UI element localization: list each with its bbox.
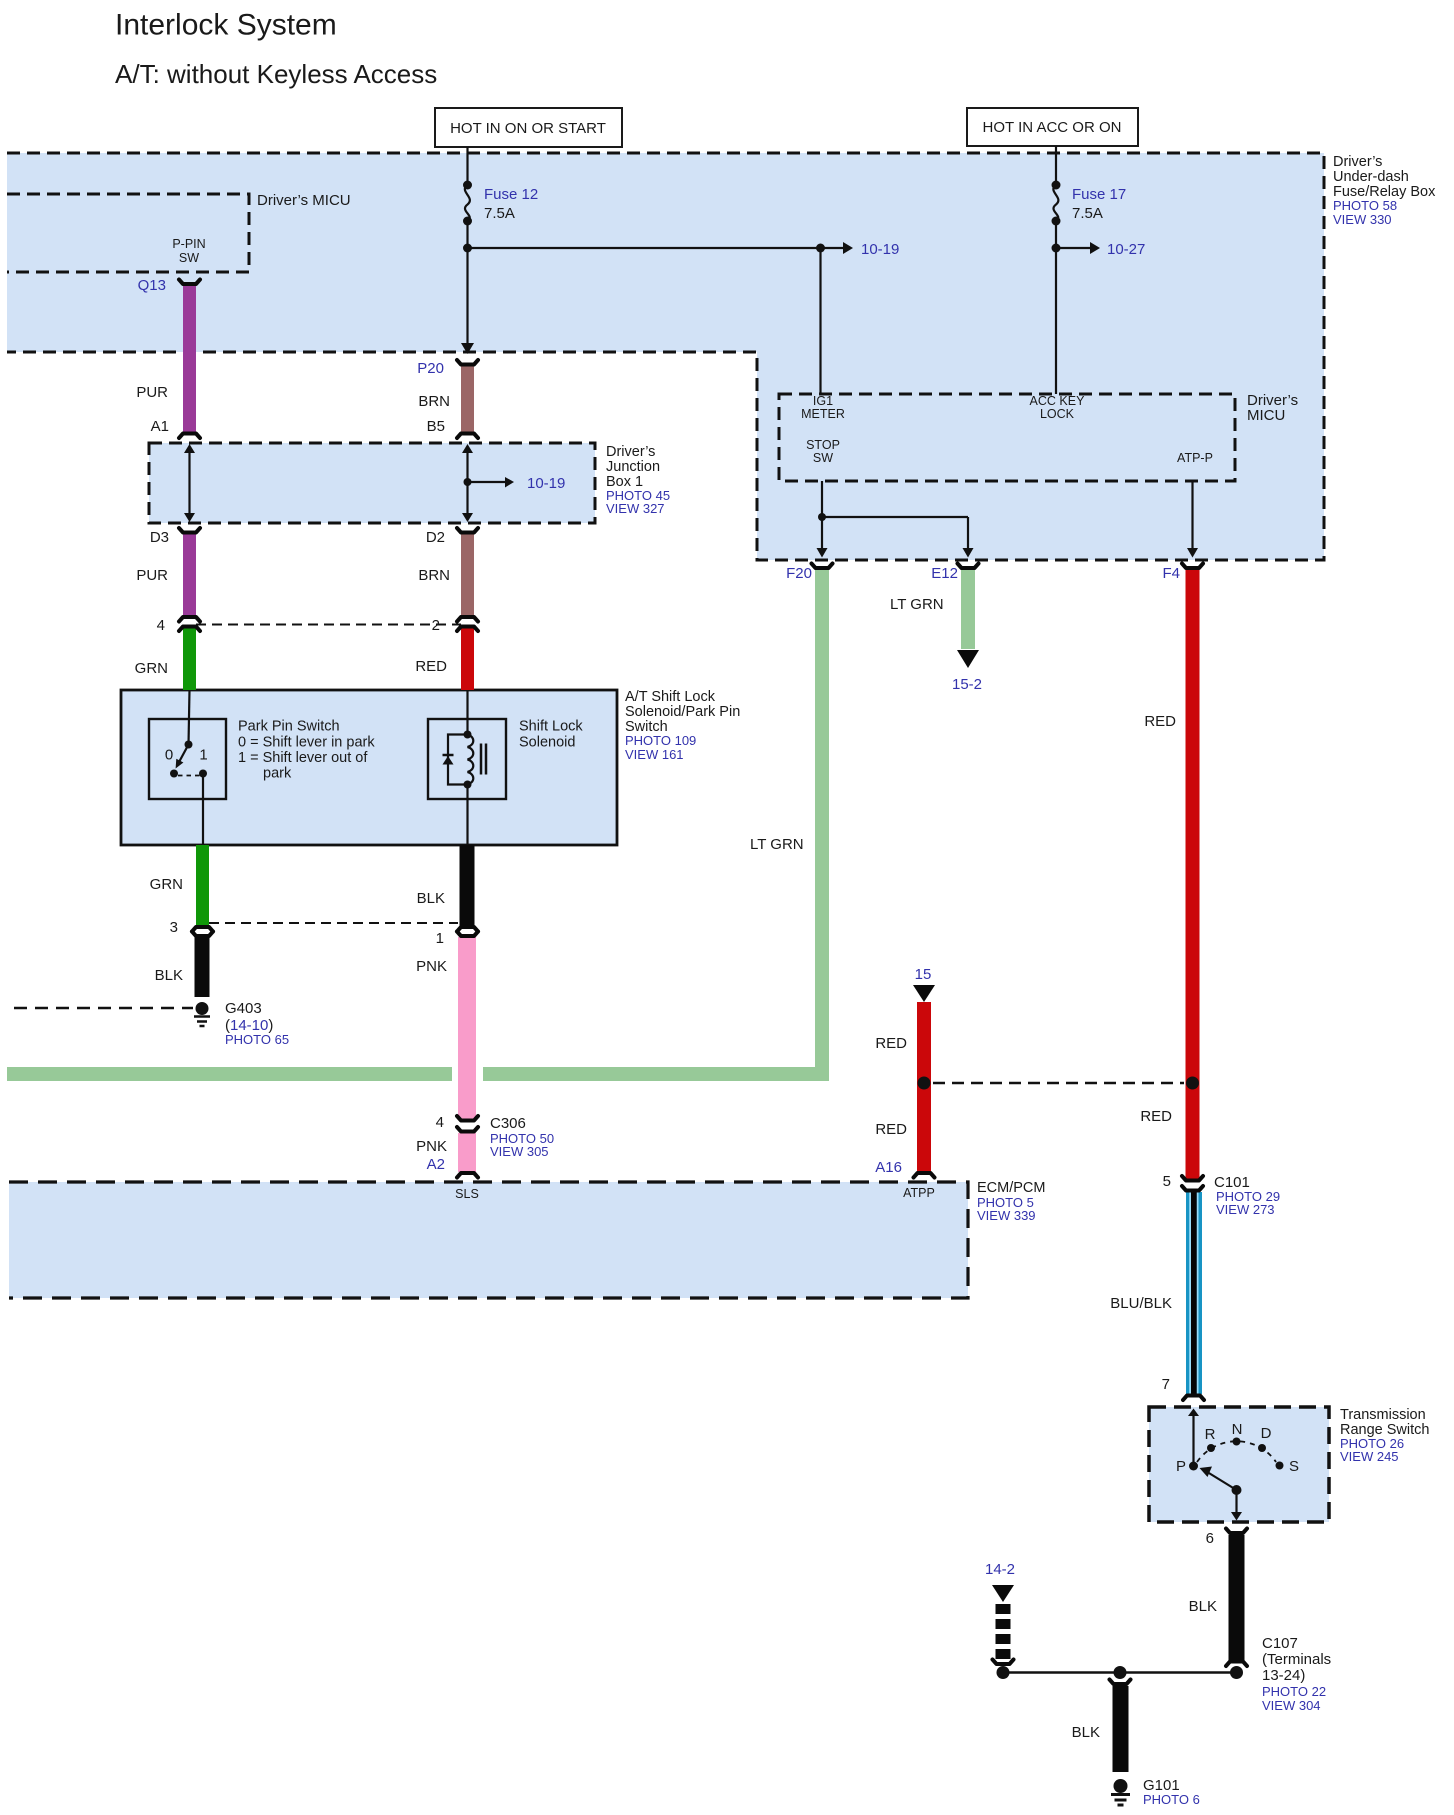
wire from HOT IN ON OR START down into fuse box — [466, 147, 468, 185]
Transmission Range Switch box — [1149, 1407, 1429, 1522]
connector 1 upper — [457, 927, 478, 932]
svg-text:Fuse 12: Fuse 12 — [484, 186, 538, 203]
wire ATP-P down to F4 — [1191, 481, 1193, 549]
wire RED 15 to A16 — [917, 1002, 931, 1172]
wire PNK over LT GRN crossing — [458, 1060, 476, 1088]
park pin switch dashed contact line — [178, 775, 200, 777]
svg-text:10-27: 10-27 — [1107, 241, 1145, 258]
wire BLU/BLK black stripe — [1191, 1192, 1197, 1394]
svg-text:A/T Shift Lock: A/T Shift Lock — [625, 689, 716, 705]
wire junction to P20 arrow — [466, 248, 468, 344]
node solenoid bottom — [464, 781, 472, 789]
svg-text:0: 0 — [165, 747, 173, 764]
arrow 14-2 triangle — [992, 1585, 1014, 1602]
svg-text:ATP-P: ATP-P — [1177, 451, 1213, 465]
svg-text:Driver’s MICU: Driver’s MICU — [257, 192, 351, 209]
svg-text:1: 1 — [199, 747, 207, 764]
svg-text:B5: B5 — [427, 418, 445, 435]
svg-text:VIEW 273: VIEW 273 — [1216, 1202, 1275, 1217]
svg-text:PNK: PNK — [416, 958, 447, 975]
arrow into P20 — [461, 343, 474, 354]
wire BRN D2 to 2 — [461, 534, 474, 616]
node 10-19 split — [463, 244, 472, 253]
G403 dashed line — [14, 1007, 193, 1010]
node STOP SW split — [818, 513, 826, 521]
diode branch left — [448, 735, 468, 785]
svg-text:RED: RED — [1140, 1108, 1172, 1125]
svg-text:RED: RED — [875, 1035, 907, 1052]
svg-text:15: 15 — [915, 966, 932, 983]
svg-text:PUR: PUR — [136, 384, 168, 401]
wire PNK C306 to A2 — [458, 1133, 476, 1172]
svg-text:BRN: BRN — [418, 567, 450, 584]
svg-text:LT GRN: LT GRN — [750, 836, 804, 853]
TRS output line — [1235, 1490, 1237, 1513]
svg-text:PHOTO 65: PHOTO 65 — [225, 1032, 289, 1047]
connector A16 — [914, 1173, 935, 1178]
arrow junction box B5 up — [462, 444, 473, 453]
svg-text:PHOTO 109: PHOTO 109 — [625, 733, 696, 748]
svg-text:BLK: BLK — [1189, 1598, 1217, 1615]
svg-text:VIEW 305: VIEW 305 — [490, 1144, 549, 1159]
svg-text:LT GRN: LT GRN — [890, 596, 944, 613]
Driver's Junction Box 1 — [149, 443, 670, 523]
connector B5 — [457, 434, 478, 439]
node RED F4 dashed link — [1186, 1077, 1199, 1090]
junction box internal arrow B5-D2 — [466, 452, 468, 514]
connector A1 — [179, 434, 200, 439]
svg-text:A/T: without Keyless Access: A/T: without Keyless Access — [115, 59, 437, 89]
node 10-27 split — [1052, 244, 1061, 253]
svg-text:VIEW 339: VIEW 339 — [977, 1208, 1036, 1223]
label box HOT IN ACC OR ON — [967, 108, 1138, 146]
svg-text:1 = Shift lever out of: 1 = Shift lever out of — [238, 750, 368, 766]
svg-text:Junction: Junction — [606, 459, 660, 475]
connector C101 lower — [1182, 1186, 1203, 1191]
park pin switch output line — [202, 774, 204, 846]
wire BLK Shift Lock Solenoid to 1 — [460, 845, 475, 926]
node C107 right — [1230, 1666, 1243, 1679]
svg-text:(Terminals: (Terminals — [1262, 1651, 1331, 1668]
wire BLK 3 to G403 — [195, 937, 210, 997]
connector Q13 — [179, 280, 200, 285]
svg-text:7: 7 — [1162, 1376, 1170, 1393]
connector F4 — [1182, 564, 1203, 569]
svg-text:1: 1 — [436, 930, 444, 947]
svg-text:C107: C107 — [1262, 1635, 1298, 1652]
svg-text:13-24): 13-24) — [1262, 1667, 1305, 1684]
arrow junction box D2 down — [462, 513, 473, 522]
svg-text:Driver’s: Driver’s — [1333, 154, 1382, 170]
TRS node N — [1233, 1438, 1241, 1446]
wire fuse 12 to junction — [466, 221, 468, 248]
ground G101 — [1111, 1779, 1130, 1805]
svg-text:F4: F4 — [1162, 565, 1180, 582]
arrow junction box D3 down — [184, 513, 195, 522]
TRS lever pivot — [1232, 1485, 1242, 1495]
park pin switch feed line — [189, 690, 190, 745]
connector F20 — [812, 564, 833, 569]
connector 14-2 — [993, 1660, 1014, 1665]
TRS lever — [1204, 1470, 1237, 1490]
svg-text:Driver’s: Driver’s — [606, 444, 655, 460]
connector C101 upper — [1182, 1176, 1203, 1181]
wire from HOT IN ACC OR ON down — [1055, 146, 1057, 185]
arrow TRS output down — [1231, 1512, 1242, 1521]
arrow 15 triangle — [913, 985, 935, 1002]
svg-text:D: D — [1261, 1425, 1272, 1442]
C107 bus line — [1003, 1671, 1237, 1674]
Driver's Under-dash Fuse/Relay Box (dashed outline, blue fill) — [7, 153, 1436, 560]
svg-text:SLS: SLS — [455, 1187, 479, 1201]
inline connector 4/2 dashed line — [196, 624, 461, 626]
label box HOT IN ON OR START — [435, 108, 622, 147]
arrow junction box A1 up — [184, 444, 195, 453]
ECM/PCM box — [9, 1180, 1045, 1298]
wire 10-27 branch horizontal — [1056, 247, 1090, 249]
svg-text:SW: SW — [813, 451, 833, 465]
wire 10-19 branch horizontal — [468, 247, 844, 249]
svg-text:ACC KEY: ACC KEY — [1030, 394, 1086, 408]
diode symbol — [443, 756, 454, 765]
svg-text:G403: G403 — [225, 1000, 262, 1017]
svg-text:BLK: BLK — [417, 890, 445, 907]
svg-text:14-2: 14-2 — [985, 1561, 1015, 1578]
node park pin 0 — [170, 770, 178, 778]
park pin switch lever — [179, 745, 189, 764]
svg-text:VIEW 304: VIEW 304 — [1262, 1698, 1321, 1713]
inline connector 3/1 dashed line — [209, 922, 458, 924]
svg-text:P: P — [1176, 1458, 1186, 1475]
wire BRN P20 to B5 — [461, 366, 474, 432]
svg-text:3: 3 — [170, 919, 178, 936]
node fuse12 top — [463, 181, 472, 190]
wire 14-2 dashed black stub — [996, 1604, 1011, 1659]
svg-text:Transmission: Transmission — [1340, 1407, 1426, 1423]
node C107 middle — [1114, 1666, 1127, 1679]
svg-text:A2: A2 — [427, 1156, 445, 1173]
connector 4 lower — [179, 627, 200, 632]
svg-text:2: 2 — [432, 617, 440, 634]
svg-text:E12: E12 — [931, 565, 958, 582]
arrow park pin lever tip — [176, 759, 184, 769]
connector 6 — [1226, 1529, 1247, 1534]
svg-text:A1: A1 — [151, 418, 169, 435]
solenoid feed line — [466, 690, 468, 735]
svg-text:N: N — [1232, 1421, 1243, 1438]
connector C107 right — [1226, 1662, 1247, 1667]
node fuse12 bottom — [463, 217, 472, 226]
svg-text:Fuse 17: Fuse 17 — [1072, 186, 1126, 203]
svg-text:Under-dash: Under-dash — [1333, 169, 1409, 185]
svg-text:BLU/BLK: BLU/BLK — [1110, 1295, 1172, 1312]
TRS dashed arc P-R-N-D-S — [1197, 1441, 1276, 1462]
wire STOP SW to junction — [821, 481, 823, 517]
connector P20 — [457, 360, 478, 365]
svg-text:GRN: GRN — [135, 660, 168, 677]
connector E12 — [958, 564, 979, 569]
svg-text:D3: D3 — [150, 529, 169, 546]
svg-text:S: S — [1289, 1458, 1299, 1475]
wire down to F20 — [821, 517, 823, 549]
node solenoid top — [464, 731, 472, 739]
node park pin common — [185, 741, 193, 749]
dashed link between RED wires — [933, 1082, 1184, 1085]
svg-text:C306: C306 — [490, 1115, 526, 1132]
svg-text:4: 4 — [436, 1114, 444, 1131]
svg-text:RED: RED — [875, 1121, 907, 1138]
svg-text:MICU: MICU — [1247, 407, 1285, 424]
connector 2 upper — [457, 617, 478, 622]
fuse F17 element — [1053, 185, 1058, 221]
svg-text:R: R — [1205, 1426, 1216, 1443]
TRS node D — [1258, 1444, 1266, 1452]
svg-text:METER: METER — [801, 407, 845, 421]
TRS node P — [1189, 1462, 1198, 1471]
TRS node R — [1207, 1444, 1215, 1452]
node 10-19 drop — [816, 244, 825, 253]
node fuse17 bottom — [1052, 217, 1061, 226]
svg-text:PHOTO 6: PHOTO 6 — [1143, 1792, 1200, 1807]
svg-text:IG1: IG1 — [813, 394, 833, 408]
fuse F12 element — [465, 185, 470, 221]
wire BLK 6 to C107 — [1229, 1535, 1245, 1661]
connector C107 middle — [1110, 1680, 1131, 1685]
svg-text:4: 4 — [157, 617, 165, 634]
wire PUR D3 to 4 — [183, 534, 196, 616]
wire LT GRN F20 vertical — [815, 570, 829, 1081]
svg-text:ECM/PCM: ECM/PCM — [977, 1180, 1045, 1196]
svg-text:A16: A16 — [875, 1159, 902, 1176]
connector D3 — [179, 528, 200, 533]
svg-text:Park Pin Switch: Park Pin Switch — [238, 719, 340, 735]
Park Pin Switch inner box — [149, 719, 375, 800]
solenoid output line — [466, 785, 468, 846]
svg-text:BLK: BLK — [155, 967, 183, 984]
svg-text:HOT IN ACC OR ON: HOT IN ACC OR ON — [983, 119, 1122, 136]
svg-text:0 = Shift lever in park: 0 = Shift lever in park — [238, 735, 375, 751]
ground G403 — [194, 1002, 210, 1026]
svg-text:ATPP: ATPP — [903, 1186, 935, 1200]
svg-text:F20: F20 — [786, 565, 812, 582]
svg-text:VIEW 245: VIEW 245 — [1340, 1449, 1399, 1464]
arrow F4 down — [1187, 548, 1198, 558]
svg-text:Q13: Q13 — [138, 277, 166, 294]
solenoid core bars — [480, 744, 483, 775]
svg-text:PUR: PUR — [136, 567, 168, 584]
junction box internal arrow A1-D3 — [188, 452, 190, 514]
svg-text:LOCK: LOCK — [1040, 407, 1075, 421]
svg-text:6: 6 — [1206, 1530, 1214, 1547]
svg-text:15-2: 15-2 — [952, 676, 982, 693]
svg-text:RED: RED — [415, 658, 447, 675]
connector 3 lower — [192, 932, 213, 937]
svg-text:PHOTO 58: PHOTO 58 — [1333, 198, 1397, 213]
node C107 14-2 — [997, 1666, 1010, 1679]
arrow 10-19 top — [843, 242, 853, 254]
svg-text:HOT IN ON OR START: HOT IN ON OR START — [450, 120, 606, 137]
A/T Shift Lock Solenoid/Park Pin Switch box — [121, 689, 740, 845]
wire BLU/BLK highlight stripes — [1189, 1192, 1191, 1394]
connector C306 lower — [457, 1127, 478, 1132]
svg-text:Interlock System: Interlock System — [115, 9, 337, 42]
arrow 10-27 — [1090, 242, 1100, 254]
junction box 10-19 branch — [468, 481, 506, 483]
connector 7 — [1183, 1396, 1204, 1401]
svg-text:5: 5 — [1163, 1173, 1171, 1190]
svg-text:STOP: STOP — [806, 438, 840, 452]
svg-text:GRN: GRN — [150, 876, 183, 893]
connector 3 upper — [192, 927, 213, 932]
TRS line to pin 7 — [1192, 1414, 1194, 1466]
connector C306 upper — [457, 1116, 478, 1121]
solenoid coil — [468, 735, 474, 785]
wire LT GRN horizontal left segment — [7, 1067, 452, 1081]
svg-text:VIEW 161: VIEW 161 — [625, 747, 684, 762]
node fuse17 top — [1052, 181, 1061, 190]
connector 1 lower — [457, 932, 478, 937]
svg-text:P20: P20 — [417, 360, 444, 377]
wire BLK C107 to G101 — [1113, 1686, 1129, 1772]
arrow junction box 10-19 — [505, 477, 514, 488]
svg-text:10-19: 10-19 — [861, 241, 899, 258]
svg-text:VIEW 330: VIEW 330 — [1333, 212, 1392, 227]
node RED 15 dashed link — [918, 1077, 931, 1090]
wire node to IG1 METER vertical — [819, 248, 821, 394]
wire LT GRN E12 stub — [961, 570, 975, 649]
connector 4 upper — [179, 617, 200, 622]
arrow TRS to pin7 up — [1188, 1409, 1199, 1417]
connector 2 lower — [457, 627, 478, 632]
svg-text:PHOTO 22: PHOTO 22 — [1262, 1684, 1326, 1699]
svg-text:Solenoid: Solenoid — [519, 735, 575, 751]
svg-text:SW: SW — [179, 251, 199, 265]
svg-text:park: park — [263, 766, 292, 782]
svg-text:PNK: PNK — [416, 1138, 447, 1155]
node park pin 1 — [199, 770, 207, 778]
Driver's MICU sub-box (right, IG1/ACC/ATP-P) — [779, 392, 1298, 481]
wire RED F4 to C101 — [1186, 570, 1200, 1180]
svg-text:D2: D2 — [426, 529, 445, 546]
svg-text:10-19: 10-19 — [527, 475, 565, 492]
svg-text:VIEW 327: VIEW 327 — [606, 501, 665, 516]
wire GRN 4 to Park Pin Switch — [183, 627, 196, 690]
node junction box 10-19 — [464, 478, 472, 486]
svg-text:P-PIN: P-PIN — [172, 237, 205, 251]
Shift Lock Solenoid inner box — [428, 719, 583, 800]
svg-text:RED: RED — [1144, 713, 1176, 730]
svg-text:7.5A: 7.5A — [484, 205, 515, 222]
wire RED 2 to Shift Lock Solenoid — [461, 627, 474, 690]
wire down to E12 — [967, 517, 969, 549]
wire fuse 17 to ACC KEY LOCK — [1055, 221, 1057, 394]
wire junction horizontal to E12 drop — [822, 516, 968, 518]
arrow TRS lever tip — [1200, 1467, 1213, 1478]
wire LT GRN horizontal right segment — [483, 1067, 829, 1081]
wire PNK 1 to C306 — [458, 937, 476, 1119]
wire PUR Q13 to A1 — [183, 286, 196, 432]
svg-text:Solenoid/Park Pin: Solenoid/Park Pin — [625, 704, 740, 720]
arrow 15-2 triangle — [957, 650, 979, 668]
svg-text:BRN: BRN — [418, 393, 450, 410]
wire BLU/BLK C101 to 7 (blue part) — [1186, 1192, 1202, 1394]
wire GRN Park Pin Switch to 3 — [196, 845, 209, 926]
connector A2 — [457, 1173, 478, 1178]
arrow F20 down — [817, 548, 828, 558]
svg-text:Shift Lock: Shift Lock — [519, 719, 583, 735]
Driver's MICU sub-box (top left, P-PIN SW) — [7, 192, 351, 272]
svg-text:BLK: BLK — [1072, 1724, 1100, 1741]
svg-text:7.5A: 7.5A — [1072, 205, 1103, 222]
TRS node S — [1276, 1462, 1284, 1470]
arrow E12 down — [963, 548, 974, 558]
connector D2 — [457, 528, 478, 533]
